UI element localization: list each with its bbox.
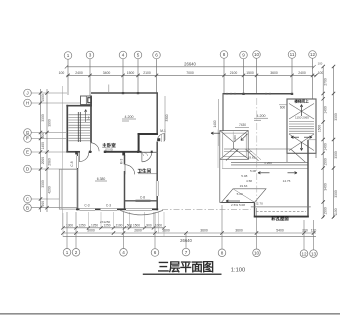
svg-text:5.08: 5.08	[250, 169, 256, 173]
svg-text:3600: 3600	[200, 229, 208, 233]
svg-text:1100: 1100	[116, 223, 123, 227]
interior wall below stair (room divider y=151.5)	[89, 151, 92, 153]
step eave diagonal 2	[249, 149, 261, 160]
eave line 1	[231, 161, 308, 163]
left eave vertical edge	[219, 159, 221, 202]
column nub grid5	[137, 92, 139, 94]
svg-text:1400: 1400	[324, 106, 328, 114]
elevation underline	[122, 118, 136, 120]
door post nub 2	[104, 151, 106, 153]
grid line 5	[137, 59, 139, 94]
svg-text:200: 200	[302, 229, 308, 233]
elevation 4.200 underline right	[254, 117, 268, 119]
svg-text:1250: 1250	[78, 223, 85, 227]
column nub grid11 right plan	[291, 93, 293, 95]
svg-text:4.58: 4.58	[246, 179, 252, 183]
bath door arc	[142, 152, 152, 162]
bubble 10 top	[253, 51, 261, 59]
pavilion hip 4	[234, 148, 249, 159]
top dimension chain line	[67, 74, 317, 76]
mullion stub above top wall	[108, 85, 110, 94]
right plan top wall	[223, 93, 293, 95]
small room (bath) left wall x=125	[124, 155, 126, 165]
grid line 12	[312, 58, 314, 99]
wall junction block at stair corner	[75, 151, 78, 154]
M-3 door arc small room	[125, 165, 135, 175]
bottom row1 tick marks	[61, 226, 165, 229]
bubble B	[24, 204, 32, 212]
bottom wall pier	[95, 208, 101, 210]
door threshold dark mark	[158, 138, 161, 141]
stairwell box right plan	[287, 99, 316, 153]
elevation tick right	[254, 119, 261, 121]
svg-text:7430: 7430	[239, 123, 246, 127]
bubble 8 bottom	[218, 249, 226, 257]
svg-text:1000: 1000	[41, 94, 45, 102]
pavilion roof square	[220, 131, 248, 160]
grid line 11	[291, 58, 293, 94]
svg-text:2.70: 2.70	[257, 201, 263, 205]
axis continuation through pavilion	[222, 131, 224, 168]
secondary ridge line	[224, 151, 252, 153]
right plan center axis vertical	[256, 98, 258, 206]
svg-text:M-3: M-3	[120, 159, 124, 165]
600 tick	[279, 104, 287, 106]
stairbox right lower stub	[315, 154, 317, 159]
svg-text:1500: 1500	[324, 207, 328, 215]
roof slope arrow mid-right	[288, 172, 298, 174]
stairwell lower X diagonals	[289, 134, 314, 151]
svg-text:1250: 1250	[91, 223, 98, 227]
bubble 1 bottom	[63, 249, 71, 257]
svg-text:(15.00): (15.00)	[105, 147, 113, 151]
bubble 4 bottom	[120, 249, 128, 257]
grid line 8	[223, 58, 225, 94]
main ridge line	[224, 148, 291, 150]
svg-text:1:100: 1:100	[231, 268, 246, 274]
left wall below window	[77, 168, 79, 210]
svg-text:3400: 3400	[324, 183, 328, 191]
grid line 10	[256, 58, 258, 94]
axis dash-dot line between plans	[162, 208, 251, 210]
stair enclosure right wall	[90, 96, 92, 143]
svg-text:C-8: C-8	[70, 161, 74, 166]
flue inner dark square	[88, 98, 92, 103]
left balcony inner rail	[60, 169, 62, 209]
svg-text:19.63: 19.63	[248, 155, 256, 159]
ridge left hip	[226, 149, 239, 161]
pavilion hip 2	[234, 131, 249, 143]
balcony rail marks outside right wall	[161, 134, 163, 142]
title underline	[143, 273, 222, 275]
svg-text:19.63: 19.63	[240, 184, 248, 188]
bubble G	[24, 129, 32, 137]
interior wall y=151.5 right part	[104, 151, 142, 153]
svg-text:26640: 26640	[184, 61, 196, 66]
stair treads	[69, 115, 91, 141]
door post nub 1	[89, 151, 91, 153]
roof annotation texts	[231, 155, 291, 207]
svg-text:1000: 1000	[155, 223, 162, 227]
bubble E	[24, 148, 32, 156]
dormer slope arrow	[226, 200, 240, 202]
svg-text:D: D	[26, 167, 30, 172]
left bubble leader lines	[31, 93, 80, 208]
svg-text:2000: 2000	[41, 157, 45, 165]
column nub grid9 right plan	[242, 93, 244, 95]
svg-text:10: 10	[254, 52, 260, 57]
bubble 3	[86, 51, 94, 59]
svg-text:3300: 3300	[41, 180, 45, 188]
bubble D	[24, 165, 32, 173]
top wall window mullions right plan	[227, 93, 270, 95]
svg-text:4200: 4200	[47, 186, 51, 194]
svg-text:26640: 26640	[180, 238, 192, 243]
bath door nub 2	[151, 151, 153, 153]
svg-text:12: 12	[301, 251, 307, 256]
balcony bottom thick wall	[254, 216, 309, 218]
svg-text:600: 600	[41, 133, 45, 139]
bubble 8 top	[220, 51, 228, 59]
bath window C-8 lines	[136, 200, 151, 202]
svg-text:上: 上	[87, 115, 91, 120]
M-1 door leaf	[164, 134, 166, 142]
M-3 door leaf	[124, 165, 126, 175]
M-1 door arc at right wall	[157, 134, 165, 142]
bubble 6	[153, 51, 161, 59]
roof slope arrow mid-left	[258, 172, 270, 174]
svg-text:2.5% 5.08: 2.5% 5.08	[231, 203, 245, 207]
svg-text:3300: 3300	[334, 190, 338, 198]
svg-text:9: 9	[242, 53, 245, 58]
bubble 5	[134, 51, 142, 59]
stair up arrow	[85, 110, 87, 123]
top grid bubbles row	[64, 51, 316, 60]
bottom dim extension lines	[63, 212, 164, 238]
dormer ridge line	[233, 189, 255, 203]
right chain rotated dimension texts	[317, 78, 338, 215]
bottom total dimension line 26640	[63, 236, 316, 238]
svg-text:13: 13	[311, 251, 317, 256]
grid extension leaders from top bubbles down to walls	[68, 58, 313, 99]
wide window bottom right room	[126, 208, 152, 210]
top bubble digits	[67, 52, 316, 58]
stairwell up arrow	[300, 105, 302, 117]
svg-text:6: 6	[155, 53, 158, 58]
eave line 2	[231, 164, 308, 166]
svg-text:8: 8	[221, 251, 224, 256]
svg-text:12: 12	[310, 52, 316, 57]
bottom row1 texts	[66, 223, 162, 227]
svg-text:900: 900	[41, 201, 45, 207]
svg-text:100: 100	[318, 71, 324, 75]
grid line 1	[67, 59, 69, 95]
bottom dimension chain (row 2)	[63, 232, 316, 234]
svg-text:1500: 1500	[127, 71, 135, 75]
bubble 2 bottom	[72, 249, 80, 257]
axis line left of pavilion	[217, 130, 219, 169]
pavilion hip 3	[220, 148, 234, 159]
svg-text:E: E	[26, 150, 29, 155]
bottom bubble digits	[66, 250, 317, 256]
svg-text:2700: 2700	[324, 78, 328, 86]
bubble H	[24, 99, 32, 107]
svg-text:J: J	[26, 91, 28, 96]
C-3 window 1	[80, 208, 96, 210]
elevation tick	[122, 120, 129, 122]
svg-text:C-3: C-3	[106, 204, 111, 208]
stair enclosure left wall	[66, 105, 68, 153]
svg-text:11: 11	[290, 52, 295, 57]
stair landing door arc	[79, 152, 88, 161]
grid line 9	[243, 59, 245, 95]
bubble F	[24, 135, 32, 143]
svg-text:彩瓦屋面: 彩瓦屋面	[270, 215, 289, 222]
stairwell upper X diagonals	[289, 104, 314, 120]
pavilion hip 1	[220, 131, 234, 143]
bottom bubble leader lines	[67, 205, 314, 250]
bottom row2 texts	[87, 229, 316, 233]
svg-text:1: 1	[66, 250, 69, 255]
left exterior wall lower with C-8 window	[77, 152, 79, 156]
svg-text:G: G	[26, 130, 30, 135]
stair enclosure top wall	[66, 105, 92, 107]
bottom row2 tick marks	[61, 231, 315, 234]
svg-text:楼梯间上: 楼梯间上	[294, 98, 309, 103]
bedroom door leaf	[90, 143, 92, 152]
svg-text:3300: 3300	[165, 114, 169, 121]
svg-text:1500: 1500	[133, 223, 140, 227]
flue divider	[85, 96, 87, 105]
bubble 6 bottom	[151, 249, 159, 257]
bottom wall pier 2	[117, 208, 126, 210]
svg-text:3300: 3300	[41, 114, 45, 122]
svg-text:4: 4	[122, 53, 125, 58]
balcony right wall	[307, 140, 309, 218]
left balcony rail rect	[59, 169, 77, 209]
svg-text:C: C	[26, 197, 30, 202]
svg-text:2: 2	[75, 250, 78, 255]
left chain tick marks	[39, 91, 49, 209]
bottom dimension detailed chain (row 1)	[63, 227, 164, 229]
left letter bubbles column	[24, 89, 32, 211]
svg-text:三层平面图: 三层平面图	[158, 260, 215, 274]
svg-text:5000: 5000	[87, 229, 95, 233]
bottom wall corner segment	[152, 208, 158, 210]
stairbox lower stubs	[286, 154, 288, 163]
grid line 4	[122, 59, 124, 94]
svg-text:3900: 3900	[47, 119, 51, 127]
svg-text:1500: 1500	[317, 125, 321, 133]
svg-text:1.260: 1.260	[264, 161, 272, 165]
svg-text:100: 100	[59, 71, 65, 75]
balcony top edge	[251, 206, 311, 208]
svg-text:1400: 1400	[41, 142, 45, 150]
grid line 3	[89, 59, 91, 96]
bubble C	[24, 195, 32, 203]
svg-text:1500: 1500	[324, 158, 328, 166]
svg-text:4.200: 4.200	[125, 115, 134, 119]
7430 underline	[235, 126, 249, 128]
svg-text:1400: 1400	[324, 143, 328, 151]
balcony dashed rail line	[256, 211, 306, 213]
stairwell treads	[289, 122, 314, 134]
right plan right wall upper segment	[308, 139, 316, 141]
slope arrow left outside	[211, 132, 220, 134]
svg-text:1: 1	[67, 53, 70, 58]
eave line 3	[222, 167, 308, 169]
pavilion dim extension	[232, 132, 234, 143]
gap dimension small chain left	[164, 96, 166, 140]
pavilion ridge	[233, 142, 235, 148]
right wall window C-6	[156, 181, 158, 196]
svg-text:14.75: 14.75	[283, 179, 291, 183]
svg-text:6: 6	[154, 250, 157, 255]
svg-text:1400: 1400	[213, 120, 217, 127]
bottom wall segments with windows	[76, 208, 80, 210]
canopy arc below bottom wall	[120, 210, 163, 215]
svg-text:8: 8	[223, 52, 226, 57]
main top wall	[91, 92, 158, 94]
extension line left of plan	[62, 86, 64, 228]
svg-text:3400: 3400	[103, 71, 111, 75]
right plan left wall	[222, 94, 224, 131]
left vertical dimension chain lines	[41, 89, 48, 212]
left bubble letters	[26, 91, 30, 211]
step eave diagonal 1	[246, 149, 259, 161]
main right wall mid	[156, 142, 158, 182]
stairwell down arrow	[300, 142, 302, 151]
svg-text:2100: 2100	[143, 71, 151, 75]
bubble 12 bottom	[300, 250, 308, 258]
svg-text:5400: 5400	[276, 229, 284, 233]
right vertical dimension chain lines	[323, 66, 333, 218]
balcony left wall	[254, 203, 256, 218]
bedroom door arc (into big room)	[91, 143, 100, 152]
stairwell left arrow	[291, 136, 299, 138]
stair bottom wall	[66, 151, 80, 153]
bottom eave horizontal	[220, 202, 255, 204]
C-3 window 2	[101, 208, 118, 210]
bottom grid bubbles	[63, 248, 317, 257]
left chain rotated dimension texts	[41, 94, 52, 206]
svg-text:2080: 2080	[47, 158, 51, 166]
svg-text:3: 3	[89, 53, 92, 58]
svg-text:3600: 3600	[162, 229, 170, 233]
svg-text:4.200: 4.200	[257, 114, 266, 118]
top chain tick marks	[66, 74, 317, 77]
bath label box line	[138, 173, 157, 175]
sheet border line bottom	[0, 313, 340, 315]
stair landing door leaf	[78, 152, 80, 161]
svg-text:F: F	[26, 136, 29, 141]
svg-text:2400: 2400	[75, 71, 83, 75]
stairwell right arrow	[304, 136, 312, 138]
cabinet arc 1 on wall	[140, 153, 143, 156]
bubble 9 top	[240, 51, 248, 59]
corner junction block	[122, 152, 125, 156]
ridge right hip	[291, 149, 306, 162]
bubble 7 bottom	[182, 248, 190, 256]
bubble 1	[64, 52, 72, 60]
svg-text:C-3: C-3	[84, 204, 89, 208]
svg-text:900: 900	[146, 223, 152, 227]
bath left wall lower	[124, 171, 126, 209]
svg-text:5: 5	[137, 53, 140, 58]
right chain tick marks	[322, 65, 336, 219]
svg-text:B: B	[26, 205, 29, 210]
wall continuation y=152.5 to right wall	[142, 151, 158, 153]
bubble 12 top	[309, 51, 317, 59]
grid line 6	[156, 59, 158, 94]
stair central stringer	[78, 112, 80, 142]
top chain dimension texts	[59, 71, 324, 75]
svg-text:2400: 2400	[298, 71, 306, 75]
bubble 10 bottom	[253, 249, 261, 257]
svg-text:H: H	[26, 101, 29, 106]
svg-text:2600: 2600	[134, 229, 142, 233]
C-8 window in left wall	[77, 156, 79, 168]
svg-text:4: 4	[122, 250, 125, 255]
pavilion slope arrow	[241, 134, 248, 141]
svg-text:600: 600	[280, 106, 286, 110]
svg-text:1500: 1500	[246, 71, 254, 75]
svg-text:1100: 1100	[334, 208, 338, 215]
bath door nub 1	[137, 151, 139, 153]
bubble J	[24, 89, 32, 97]
svg-text:5.08: 5.08	[241, 174, 247, 178]
pavilion inner eave	[223, 133, 247, 156]
main right wall upper	[156, 93, 158, 134]
svg-text:6.380: 6.380	[97, 177, 106, 181]
svg-text:100: 100	[318, 62, 323, 66]
gap dimension small chain right	[217, 99, 219, 146]
svg-text:3300: 3300	[334, 113, 338, 121]
svg-text:C-8: C-8	[140, 195, 145, 199]
svg-text:3600: 3600	[235, 229, 243, 233]
svg-text:5.09: 5.09	[237, 192, 243, 196]
lower dormer roof quad	[222, 189, 267, 203]
bath bottom wall	[125, 200, 158, 202]
bubble 4	[119, 51, 127, 59]
svg-text:1250: 1250	[103, 223, 110, 227]
bubble 13 bottom	[310, 250, 318, 258]
interior dark wall x=138.5	[138, 134, 140, 152]
svg-text:7: 7	[185, 250, 188, 255]
flue box at stair top	[81, 96, 92, 105]
svg-text:3300: 3300	[334, 151, 338, 159]
main right wall lower	[156, 196, 158, 210]
svg-text:10: 10	[254, 251, 260, 256]
svg-text:7000: 7000	[186, 71, 194, 75]
cabinet arc 2 on wall	[144, 153, 147, 156]
interior dark wall y=134	[138, 133, 159, 135]
bath door leaf	[141, 152, 143, 162]
svg-text:2100: 2100	[230, 71, 238, 75]
svg-text:1150 2065: 1150 2065	[295, 116, 309, 120]
bubble 11	[288, 51, 296, 59]
svg-text:3600: 3600	[270, 71, 278, 75]
column nub grid4	[122, 92, 124, 94]
elevation 6.380 underline	[95, 180, 107, 182]
overall dimension line 26640	[65, 65, 316, 68]
